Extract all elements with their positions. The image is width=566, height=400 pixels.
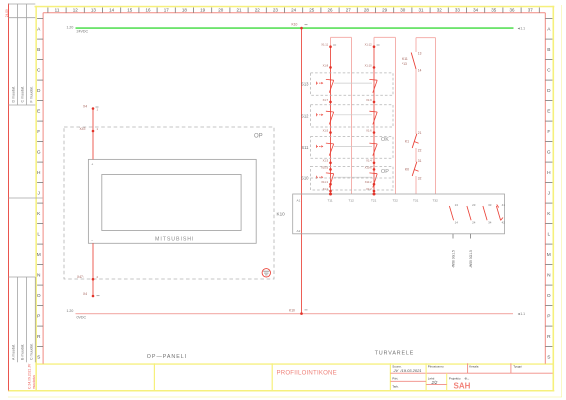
junction on 0VDC rail	[300, 312, 303, 315]
terminal X1:9	[373, 101, 376, 104]
drawing frame red border top	[43, 12, 545, 14]
terminal X1:4	[373, 162, 376, 165]
svg-text:X11:1: X11:1	[321, 180, 328, 184]
switch S10 inner dashed line	[311, 177, 394, 179]
svg-text:S12: S12	[301, 113, 309, 118]
page outer border (left red)	[8, 4, 10, 392]
enclosure OP dashed box	[64, 127, 274, 279]
title block grid	[390, 363, 552, 391]
svg-text:34: 34	[488, 220, 492, 224]
svg-text:TURVARELE: TURVARELE	[375, 351, 414, 357]
svg-text:B: B	[37, 47, 40, 53]
svg-text:12: 12	[73, 7, 79, 12]
svg-text:K: K	[37, 211, 41, 217]
svg-text:◄1.1: ◄1.1	[517, 312, 525, 316]
wire channel1 U-top	[331, 36, 352, 38]
svg-text:J: J	[37, 191, 40, 197]
svg-text:C: C	[37, 68, 41, 74]
svg-text:13: 13	[455, 203, 459, 207]
svg-text:T22: T22	[393, 198, 399, 202]
title block labels	[392, 364, 522, 388]
svg-text:B: B	[547, 47, 550, 53]
wire channel1 pink top stub	[330, 37, 332, 46]
ruler column ticks and numbers 11-37	[48, 7, 539, 12]
svg-text:17: 17	[164, 7, 170, 12]
switch S10 contact ch2	[369, 172, 377, 175]
svg-text:Tyyppi: Tyyppi	[513, 364, 522, 368]
svg-text:11: 11	[55, 7, 60, 12]
terminal X1:10	[373, 66, 376, 69]
terminal X10:5	[329, 168, 332, 171]
terminal X4	[92, 107, 95, 110]
svg-text:2: 2	[97, 275, 99, 279]
switch S10 contact ch1	[326, 172, 334, 175]
wire panel supply top	[92, 109, 94, 160]
svg-text:27: 27	[346, 7, 352, 12]
relay aux contact 33/34	[483, 203, 492, 224]
svg-text:1: 1	[97, 108, 99, 112]
svg-text:C: C	[547, 68, 551, 74]
switch S10 dashed box	[311, 166, 394, 190]
svg-text:18: 18	[182, 7, 188, 12]
svg-text:OP: OP	[254, 134, 263, 140]
title strip cell dividers	[153, 363, 155, 391]
relay K10 box	[293, 194, 505, 234]
svg-text:G: G	[547, 150, 551, 156]
svg-text:T21: T21	[371, 198, 377, 202]
terminal X1:3	[329, 162, 332, 165]
svg-text:O: O	[547, 293, 551, 299]
svg-text:2/2: 2/2	[431, 380, 438, 385]
svg-text:X47:: X47:	[77, 275, 84, 279]
svg-text:42: 42	[502, 220, 506, 224]
svg-text:21: 21	[418, 131, 422, 135]
switch S12 mechanical link	[334, 114, 372, 116]
svg-text:T31: T31	[413, 198, 419, 202]
svg-text:32: 32	[437, 7, 443, 12]
svg-text:X1:5: X1:5	[323, 128, 329, 132]
svg-text:X1:4: X1:4	[366, 159, 372, 163]
wire stub aux 24	[470, 234, 472, 239]
svg-text:32: 32	[418, 177, 422, 181]
svg-text:R: R	[547, 334, 551, 340]
svg-text:24: 24	[472, 220, 476, 224]
relay aux contact 13/14	[449, 203, 458, 224]
contact K0 31/32	[405, 159, 422, 181]
revision table divider middle	[9, 197, 43, 199]
svg-text:13: 13	[91, 7, 97, 12]
wire K10 coil from 24VDC	[301, 28, 303, 314]
svg-text:J: J	[548, 191, 551, 197]
svg-text:A: A	[547, 27, 551, 33]
svg-text:Projektio: Projektio	[449, 376, 461, 380]
svg-text:T11: T11	[328, 198, 333, 202]
svg-text:X1:3: X1:3	[323, 159, 329, 163]
svg-text:K11: K11	[402, 57, 408, 61]
svg-text:X1:10: X1:10	[365, 63, 373, 67]
page outer faint yellow border right	[561, 5, 563, 397]
svg-text:1.20: 1.20	[67, 309, 74, 313]
terminal X11:2	[373, 183, 376, 186]
svg-text:F muudat.: F muudat.	[30, 86, 34, 102]
svg-text:M: M	[37, 252, 41, 258]
panel screen	[102, 175, 241, 231]
terminal X1:2	[373, 190, 376, 193]
svg-text:28: 28	[364, 7, 370, 12]
wire channel2 pink top stub	[373, 37, 375, 46]
switch S10 mechanical link	[334, 176, 372, 178]
svg-text:41: 41	[502, 203, 506, 207]
switch S13 contact ch2	[369, 78, 377, 81]
svg-text:24.09: 24.09	[5, 9, 9, 17]
wire channel2 return leg	[395, 37, 397, 194]
terminal X1:8	[329, 66, 332, 69]
svg-text:X1:7: X1:7	[323, 98, 329, 102]
svg-text:22: 22	[255, 7, 261, 12]
wire panel supply bottom	[92, 243, 94, 296]
svg-text:-W08 3G1.5: -W08 3G1.5	[452, 250, 456, 268]
svg-text:15: 15	[127, 7, 133, 12]
switch S12 dashed box	[311, 105, 394, 127]
svg-text:34: 34	[473, 7, 479, 12]
wire K11 leg right	[435, 38, 437, 194]
revision table top-left	[9, 4, 36, 105]
drawing frame red border left	[42, 13, 44, 364]
wire channel2 chain	[373, 47, 375, 194]
svg-text:O: O	[37, 293, 41, 299]
switch S12 contact ch1	[326, 110, 334, 113]
svg-text:K10: K10	[289, 309, 295, 313]
switch S11 mechanical link	[334, 145, 372, 147]
svg-text:X11:2: X11:2	[365, 180, 372, 184]
svg-text:P: P	[547, 314, 550, 320]
terminal ticks top row	[333, 44, 336, 46]
svg-text:X1:8: X1:8	[323, 63, 329, 67]
svg-text:25: 25	[309, 7, 315, 12]
svg-text:A1: A1	[297, 198, 301, 202]
svg-text:X1:6: X1:6	[366, 128, 372, 132]
wire K11 loop top	[416, 37, 436, 39]
drawing frame red border right	[544, 13, 546, 364]
svg-text:H: H	[547, 170, 551, 176]
contact K1 21/22	[405, 131, 422, 153]
switch S13 dashed box	[311, 73, 394, 95]
svg-text:S: S	[37, 355, 40, 361]
switch S11 actuator	[317, 145, 323, 147]
svg-text:29: 29	[382, 7, 388, 12]
svg-text:24VDC: 24VDC	[77, 29, 89, 33]
switch S11 contact ch1	[326, 142, 334, 145]
svg-text:X4: X4	[83, 105, 87, 109]
svg-text:PROFIILOINTIKONE: PROFIILOINTIKONE	[277, 369, 337, 376]
svg-text:X1:12: X1:12	[365, 43, 373, 47]
svg-text:1.20: 1.20	[67, 25, 74, 29]
svg-text:D: D	[547, 88, 551, 94]
wire channel2 U-top	[374, 36, 396, 38]
operator panel outline	[88, 159, 256, 243]
svg-text:20: 20	[218, 7, 224, 12]
earth symbol in OP box	[262, 269, 270, 277]
switch S10 actuator	[317, 176, 323, 178]
wire channel1 return leg	[351, 37, 353, 194]
switch S12 contact ch2	[369, 110, 377, 113]
svg-text:33: 33	[455, 7, 461, 12]
svg-text:X1:1: X1:1	[323, 187, 329, 191]
svg-text:K: K	[547, 211, 551, 217]
terminal X1:6	[373, 131, 376, 134]
svg-text:-W09 3G1.5: -W09 3G1.5	[469, 250, 473, 268]
node 24VDC rail	[76, 27, 514, 29]
svg-text:C muudat.: C muudat.	[30, 343, 34, 360]
svg-text:*13: *13	[402, 62, 407, 66]
terminal X47:1	[92, 130, 95, 133]
svg-text:OP: OP	[381, 169, 389, 175]
svg-text:A: A	[37, 27, 41, 33]
switch S13 mechanical link	[334, 82, 372, 84]
svg-text:X47:: X47:	[80, 127, 87, 131]
switch S13 actuator	[317, 82, 323, 84]
svg-text:N: N	[547, 273, 551, 279]
terminal X1:12	[373, 45, 376, 48]
svg-text:SAH: SAH	[454, 381, 471, 390]
svg-text:X1:11: X1:11	[321, 43, 328, 47]
svg-text:T32: T32	[433, 198, 439, 202]
svg-text:−: −	[91, 239, 93, 243]
terminal X11:1	[329, 183, 332, 186]
svg-text:D: D	[37, 88, 41, 94]
terminal X1:1	[329, 190, 332, 193]
row letters right column	[545, 19, 552, 361]
svg-text:X4: X4	[83, 292, 87, 296]
svg-text:26: 26	[327, 7, 333, 12]
svg-text:X10:6: X10:6	[365, 165, 373, 169]
svg-text:Piirt.: Piirt.	[392, 377, 398, 381]
terminal X47:2	[92, 278, 95, 281]
svg-text:D muudat.: D muudat.	[12, 86, 16, 103]
frame yellow band top	[35, 6, 555, 8]
svg-text:OP—PANELI: OP—PANELI	[147, 354, 187, 360]
svg-text:T12: T12	[349, 198, 355, 202]
switch S11 dashed box	[311, 137, 394, 159]
svg-text:B muudat.: B muudat.	[21, 344, 25, 360]
svg-text:H: H	[37, 170, 41, 176]
svg-text:⊕↔: ⊕↔	[465, 376, 470, 380]
svg-text:0VDC: 0VDC	[77, 315, 87, 319]
svg-text:31: 31	[418, 7, 424, 12]
svg-text:36: 36	[509, 7, 515, 12]
junction on 24VDC rail	[300, 27, 303, 30]
svg-text:23: 23	[472, 203, 476, 207]
svg-text:C muudat.: C muudat.	[21, 86, 25, 103]
terminal X4:2	[92, 295, 95, 298]
revision table bottom-left	[9, 277, 36, 362]
relay aux contact 41/42	[496, 203, 505, 224]
svg-text:K1: K1	[405, 140, 409, 144]
svg-text:S: S	[547, 355, 550, 361]
switch S12 actuator	[317, 114, 323, 116]
svg-text:M: M	[547, 252, 551, 258]
svg-text:S10: S10	[301, 176, 309, 181]
svg-text:13: 13	[418, 52, 422, 56]
svg-text:K0: K0	[405, 168, 409, 172]
page outer faint yellow border bottom	[8, 396, 562, 398]
terminal X1:5	[329, 131, 332, 134]
terminal X10:6	[373, 168, 376, 171]
svg-text:muudatus: muudatus	[32, 375, 36, 389]
svg-text:◄1.1: ◄1.1	[517, 27, 525, 31]
svg-text:14: 14	[455, 220, 459, 224]
svg-text:22: 22	[418, 149, 422, 153]
svg-text:A2: A2	[297, 229, 301, 233]
svg-text:K10: K10	[292, 23, 298, 27]
svg-text:19: 19	[200, 7, 206, 12]
switch S11 contact ch2	[369, 142, 377, 145]
svg-text:JV /19.03.2021: JV /19.03.2021	[393, 368, 422, 373]
svg-text:L: L	[547, 232, 550, 238]
svg-text:33: 33	[488, 203, 492, 207]
relay terminals top labels	[297, 198, 439, 202]
svg-text:Tark.: Tark.	[392, 385, 399, 389]
svg-text:E: E	[547, 109, 550, 115]
svg-text:G: G	[37, 150, 41, 156]
node 0VDC rail	[76, 313, 514, 315]
svg-text:35: 35	[491, 7, 497, 12]
svg-text:R: R	[37, 334, 41, 340]
svg-text:N: N	[37, 273, 41, 279]
terminal X1:7	[329, 101, 332, 104]
svg-text:F: F	[547, 129, 550, 135]
frame yellow band bottom	[9, 390, 555, 392]
svg-text:S11: S11	[301, 145, 309, 150]
svg-text:X10:5: X10:5	[321, 165, 329, 169]
terminal X1:11	[329, 45, 332, 48]
svg-text:E: E	[37, 109, 40, 115]
row letters left column	[37, 19, 43, 361]
svg-text:S13: S13	[301, 82, 309, 87]
svg-text:L: L	[37, 232, 40, 238]
svg-text:24: 24	[291, 7, 297, 12]
svg-text:Piirustusnro: Piirustusnro	[428, 364, 444, 368]
svg-text:P: P	[37, 314, 40, 320]
svg-text:30: 30	[400, 7, 406, 12]
svg-text:X1:9: X1:9	[366, 98, 372, 102]
svg-text:+: +	[91, 162, 93, 166]
title strip top yellow line	[35, 363, 552, 364]
relay aux contact 23/24	[467, 203, 476, 224]
svg-text:14: 14	[109, 7, 115, 12]
svg-text:K10: K10	[277, 211, 286, 216]
wire stub aux 14	[452, 234, 454, 239]
wire K11 leg left	[415, 38, 417, 194]
frame yellow band right	[553, 6, 555, 392]
junction dots on relay box top	[329, 193, 376, 196]
contact K11	[402, 52, 422, 73]
svg-text:A muudat.: A muudat.	[12, 344, 16, 360]
switch S13 contact ch1	[326, 78, 334, 81]
svg-text:23: 23	[273, 7, 279, 12]
wire channel1 chain	[330, 47, 332, 194]
svg-text:X1:2: X1:2	[366, 187, 372, 191]
svg-text:31: 31	[418, 159, 422, 163]
frame yellow band left	[35, 6, 37, 392]
svg-text:MITSUBISHI: MITSUBISHI	[155, 237, 194, 243]
svg-text:OK: OK	[381, 137, 389, 143]
svg-text:16: 16	[145, 7, 151, 12]
svg-text:F: F	[37, 129, 40, 135]
svg-text:Kesala: Kesala	[469, 364, 479, 368]
svg-text:21: 21	[236, 7, 242, 12]
svg-text:37: 37	[528, 7, 534, 12]
svg-text:14: 14	[418, 69, 422, 73]
